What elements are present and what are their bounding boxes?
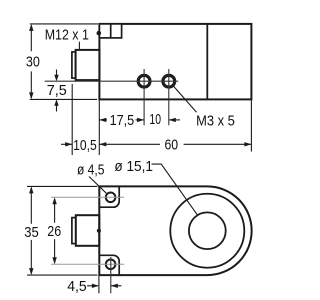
svg-text:M12 x 1: M12 x 1 — [45, 28, 89, 44]
svg-text:26: 26 — [47, 224, 61, 240]
svg-text:7,5: 7,5 — [47, 83, 67, 99]
svg-text:35: 35 — [24, 225, 39, 241]
svg-text:10,5: 10,5 — [73, 138, 97, 154]
svg-text:30: 30 — [26, 54, 40, 70]
svg-text:ø 4,5: ø 4,5 — [77, 163, 105, 179]
svg-text:60: 60 — [165, 138, 179, 154]
svg-text:4,5: 4,5 — [67, 279, 86, 295]
svg-text:ø 15,1: ø 15,1 — [114, 159, 153, 175]
svg-text:10: 10 — [149, 112, 161, 128]
svg-text:M3 x 5: M3 x 5 — [196, 113, 235, 129]
svg-text:17,5: 17,5 — [110, 113, 135, 129]
